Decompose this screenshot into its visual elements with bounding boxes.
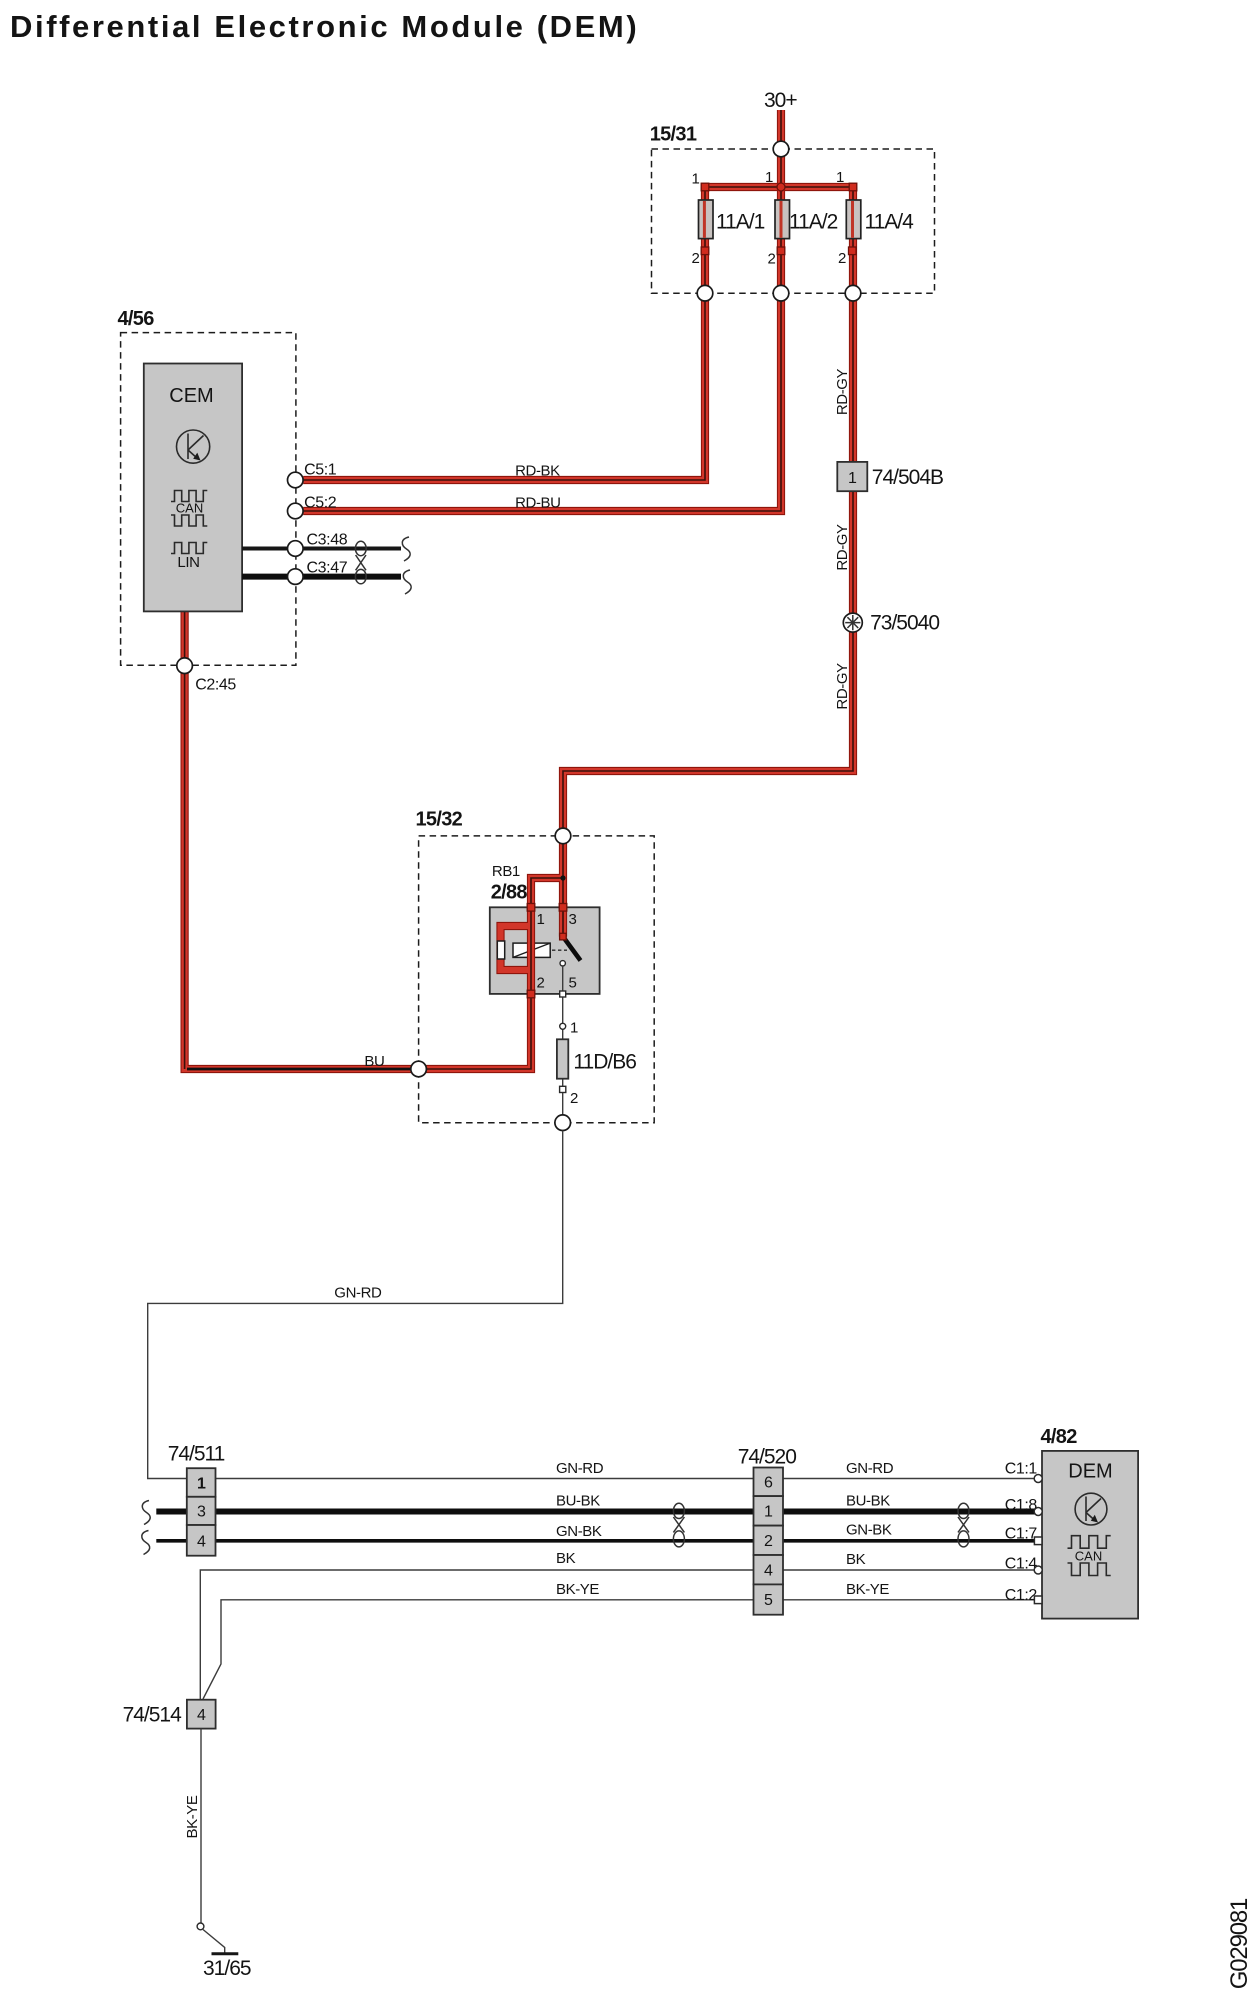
svg-text:2/88: 2/88 [491,882,528,904]
fuse 11A/1 body [699,200,714,239]
svg-text:1: 1 [765,169,773,186]
wire C3:47 [242,574,401,580]
svg-text:LIN: LIN [177,554,199,571]
svg-text:11A/1: 11A/1 [716,211,765,234]
svg-text:3: 3 [569,911,577,928]
wire BK-YE to ground [200,1729,202,1923]
svg-text:3: 3 [197,1504,206,1521]
twisted pair symbol (between 74/520 and DEM) [958,1503,969,1547]
svg-text:2: 2 [692,250,700,267]
fuse 11A/2 body [775,200,790,239]
splice 73/5040 [843,613,862,632]
fuse 11D/B6 pin 1 [560,1023,566,1029]
connector 74/504B [837,462,867,491]
svg-text:Differential Electronic Module: Differential Electronic Module (DEM) [10,9,639,44]
svg-text:DEM: DEM [1068,1461,1112,1483]
svg-text:RD-GY: RD-GY [834,368,851,415]
svg-text:74/511: 74/511 [168,1443,225,1466]
wire: red highlighted power path (30+, fuses, RD-GY, relay, BU) [185,110,853,1069]
svg-text:C3:47: C3:47 [307,560,348,577]
svg-text:C3:48: C3:48 [307,532,348,549]
svg-text:1: 1 [197,1476,206,1493]
break symbol C3:48 [402,537,410,561]
twisted pair symbol (CEM LIN wires) [355,541,366,584]
svg-text:2: 2 [764,1533,773,1550]
svg-text:1: 1 [836,169,844,186]
relay pin squares [527,904,535,912]
wire BK [200,1570,1034,1700]
relay pin 5 terminal [560,961,565,966]
svg-text:RD-BU: RD-BU [515,495,561,512]
connector circles on 15/32 box edges [555,828,571,844]
svg-text:4/56: 4/56 [118,308,155,330]
CEM control-unit symbol (circle with transistor arrow) [177,430,210,463]
svg-text:C1:4: C1:4 [1005,1555,1038,1572]
svg-text:CAN: CAN [176,501,203,516]
svg-text:4: 4 [197,1707,206,1724]
svg-text:6: 6 [764,1475,773,1492]
fuse 11D/B6 body [557,1039,568,1078]
svg-text:C1:2: C1:2 [1005,1587,1038,1604]
svg-text:31/65: 31/65 [203,1957,251,1980]
DEM CAN symbol [1068,1536,1111,1576]
svg-text:11D/B6: 11D/B6 [573,1051,636,1074]
svg-text:GN-RD: GN-RD [556,1460,604,1477]
svg-text:15/32: 15/32 [416,809,463,831]
svg-text:74/504B: 74/504B [872,466,943,489]
svg-text:74/514: 74/514 [123,1704,183,1727]
svg-text:GN-BK: GN-BK [846,1522,892,1539]
svg-text:5: 5 [569,975,577,992]
svg-text:C5:1: C5:1 [304,462,337,479]
svg-text:1: 1 [570,1020,578,1037]
svg-text:GN-RD: GN-RD [846,1460,894,1477]
relay box 15/32 (dashed enclosure) [419,836,655,1123]
pin squares on fuse terminals [701,183,709,191]
svg-text:2: 2 [838,250,846,267]
svg-text:BU-BK: BU-BK [846,1493,890,1510]
svg-text:C2:45: C2:45 [195,677,236,694]
svg-text:11A/2: 11A/2 [789,211,838,234]
wire from relay pin 5 to fuse 11D/B6 [562,966,564,1119]
svg-text:30+: 30+ [764,89,797,112]
svg-text:BK-YE: BK-YE [184,1795,201,1838]
fuse 11A/4 body [846,200,861,239]
svg-text:BK-YE: BK-YE [846,1581,889,1598]
connector circles on 15/31 box edges [773,141,789,157]
DEM pin terminals [1034,1475,1042,1483]
wire GN-BK [156,1539,1034,1543]
DEM control-unit symbol [1075,1493,1107,1525]
svg-text:RD-BK: RD-BK [515,463,560,480]
control module CEM 4/56 (dashed enclosure) [121,333,296,666]
fuse 11D/B6 pin 2 [560,1086,566,1092]
svg-text:BU-BK: BU-BK [556,1493,600,1510]
relay mechanical link (dashed) [552,949,567,951]
relay RB1 2/88 body [490,907,600,994]
ground 31/65 [197,1923,238,1954]
break symbol C3:47 [403,570,411,594]
svg-text:CEM: CEM [169,385,213,407]
svg-text:73/5040: 73/5040 [870,612,939,635]
svg-text:4: 4 [764,1563,773,1580]
svg-text:BK-YE: BK-YE [556,1581,599,1598]
svg-text:BU: BU [364,1053,384,1070]
svg-text:CAN: CAN [1075,1549,1102,1564]
relay parallel resistor [497,941,504,959]
svg-text:1: 1 [848,470,857,487]
svg-text:15/31: 15/31 [650,124,697,146]
svg-text:2: 2 [768,251,776,268]
svg-text:BK: BK [556,1550,576,1567]
svg-text:C5:2: C5:2 [304,495,337,512]
CEM pin circles [288,472,304,488]
twisted pair symbol (between 74/511 and 74/520) [673,1503,684,1547]
wire BU black core [187,1068,413,1071]
svg-text:11A/4: 11A/4 [865,211,915,234]
svg-text:5: 5 [764,1592,773,1609]
break symbol GN-BK (left) [142,1531,150,1555]
svg-text:4: 4 [197,1534,206,1551]
fuse box 15/31 (dashed enclosure) [652,149,935,293]
svg-text:C1:7: C1:7 [1005,1525,1038,1542]
svg-text:74/520: 74/520 [738,1446,797,1469]
svg-text:1: 1 [537,911,545,928]
CEM CAN symbol [171,491,207,527]
svg-text:4/82: 4/82 [1041,1426,1078,1448]
svg-text:GN-RD: GN-RD [334,1285,382,1302]
svg-text:RD-GY: RD-GY [834,663,851,710]
svg-text:RD-GY: RD-GY [834,524,851,571]
svg-text:2: 2 [570,1090,578,1107]
svg-text:1: 1 [764,1504,773,1521]
junction (relay feed) [560,875,565,880]
wire BU-BK (thick) [156,1509,1034,1515]
svg-text:1: 1 [692,171,700,188]
wire BK-YE [203,1600,1035,1699]
svg-text:GN-BK: GN-BK [556,1523,602,1540]
relay coil symbol [513,943,550,957]
wire GN-RD (74/511 to 74/520 to DEM C1:1) [216,1478,1035,1480]
svg-text:RB1: RB1 [492,863,520,880]
svg-text:G029081: G029081 [1226,1898,1253,1989]
CEM LIN symbol [171,543,207,554]
break symbol BU-BK (left) [142,1501,150,1525]
wire C3:48 (LIN) [242,547,401,551]
relay contact arm [563,937,581,961]
svg-text:2: 2 [537,975,545,992]
svg-text:C1:8: C1:8 [1005,1497,1038,1514]
wire GN-RD from 15/32 to 74/511 [148,1131,563,1479]
CEM module body [144,364,242,612]
svg-text:BK: BK [846,1551,866,1568]
svg-text:C1:1: C1:1 [1005,1461,1038,1478]
